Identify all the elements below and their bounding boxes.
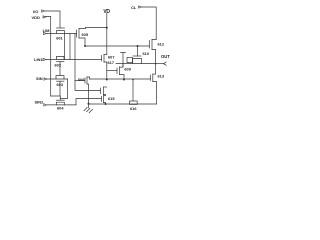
transistor Q601 [57, 27, 65, 29]
wire OUT down [155, 64, 157, 74]
svg-text:617: 617 [108, 60, 115, 65]
wire OUT arrow [156, 63, 164, 65]
wire LIM bus [47, 33, 77, 35]
component T614 stem [122, 53, 124, 68]
wire node 79.5 [90, 78, 151, 80]
svg-text:603: 603 [57, 82, 64, 87]
svg-text:LIN1: LIN1 [34, 57, 43, 62]
transistor Q610 gate lead [137, 46, 139, 56]
transistor Q607 [101, 56, 103, 62]
wire long node 46 [85, 45, 149, 47]
svg-text:615: 615 [108, 96, 115, 101]
svg-text:OUT: OUT [161, 54, 170, 59]
transistor Q604 gate lead [51, 96, 61, 100]
wire to 606 gate [75, 80, 84, 82]
junction dot [84, 45, 86, 47]
wire 607-to-609-gate [107, 70, 117, 72]
wire VD rail top [106, 13, 108, 55]
svg-text:602: 602 [55, 63, 62, 68]
svg-text:VDD: VDD [32, 15, 41, 20]
arrow LIM [44, 32, 47, 34]
svg-text:612: 612 [158, 42, 165, 47]
svg-text:VD: VD [103, 9, 110, 15]
wire CL input [142, 7, 156, 38]
wire LIN1 [46, 59, 101, 61]
capacitor C-mid box [130, 101, 138, 104]
wire 605-to-VD [86, 27, 107, 29]
ground stub [88, 104, 90, 108]
svg-text:610: 610 [143, 51, 150, 56]
wire SIN2 [47, 104, 76, 106]
svg-text:604: 604 [57, 105, 64, 110]
junction dot [106, 79, 108, 81]
junction dot [105, 103, 107, 105]
junction dot [137, 45, 139, 47]
svg-text:601: 601 [56, 36, 63, 41]
junction dot [106, 27, 108, 29]
wire bottom rail [89, 103, 157, 105]
svg-text:605: 605 [82, 32, 89, 37]
component T614 plate [121, 52, 126, 54]
transistor Q609 [116, 68, 118, 74]
wire 603gate-down [59, 81, 61, 96]
transistor Q608 [100, 88, 102, 94]
node I/O input wire [45, 11, 60, 28]
svg-text:CL: CL [131, 5, 137, 10]
transistor Q612 [148, 41, 150, 49]
ground symbol [84, 107, 92, 112]
transistor Q602 [57, 56, 65, 59]
label box 614 [127, 58, 133, 63]
junction dot [123, 79, 125, 81]
node VDD input wire [45, 17, 51, 97]
capacitor C-mid lead [132, 80, 134, 102]
transistor Q615 [101, 97, 103, 102]
wire SIN [47, 78, 68, 80]
junction dot [132, 79, 134, 81]
tap wire C [74, 34, 76, 81]
svg-text:LIM: LIM [43, 28, 51, 33]
wire to 608 gate [75, 81, 100, 91]
svg-text:607: 607 [108, 55, 115, 60]
tap wire B [69, 34, 71, 60]
wire 604-to-615-gate [76, 99, 101, 105]
arrow I/O [42, 10, 45, 12]
transistor Q603 [56, 76, 64, 79]
svg-text:613: 613 [158, 74, 165, 79]
tap wire A [64, 34, 66, 60]
svg-text:SIN2: SIN2 [35, 99, 45, 104]
svg-text:I/O: I/O [33, 9, 38, 14]
transistor Q605 [76, 30, 78, 37]
wire OUT net [116, 63, 156, 65]
wire 603-out-down [60, 79, 67, 99]
arrow VDD [43, 16, 46, 18]
transistor Q613 [149, 75, 151, 81]
svg-text:606: 606 [78, 77, 85, 82]
arrow CL [139, 6, 142, 8]
arrow SIN [44, 78, 47, 80]
junction dot [88, 103, 90, 105]
transistor Q606 [84, 78, 86, 83]
wire 602gate-to-603 [59, 62, 61, 76]
svg-text:616: 616 [130, 106, 137, 111]
svg-text:609: 609 [124, 66, 131, 71]
arrow SIN2 [44, 104, 47, 106]
arrow LIN1 [43, 58, 46, 60]
svg-text:SIN: SIN [36, 76, 43, 81]
